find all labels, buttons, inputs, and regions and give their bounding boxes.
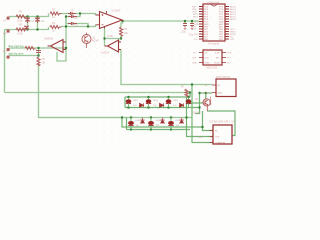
wire fb resistor <box>121 21 123 27</box>
wire drive right leg <box>9 47 66 49</box>
svg-text:drive right leg: drive right leg <box>8 44 24 48</box>
IC1 outside pin labels <box>192 5 237 41</box>
svg-text:LED6: LED6 <box>156 120 162 122</box>
svg-text:VDD: VDD <box>227 52 232 54</box>
IC4 ultrasonic box <box>210 125 233 144</box>
wire opamp3 vertical <box>57 17 66 62</box>
svg-text:CLK: CLK <box>192 57 197 59</box>
wire cap q1 <box>184 21 186 23</box>
wire row2 <box>5 27 49 30</box>
wire q1 left col <box>195 93 200 114</box>
wire collector stub <box>205 93 207 99</box>
capacitor C2 <box>35 17 40 24</box>
wire R column x38 <box>38 48 40 57</box>
wire opamp2 input <box>118 39 120 42</box>
wire x38 down long <box>39 64 127 118</box>
wire opamp1 out <box>123 20 200 22</box>
wire emitter right <box>207 111 235 136</box>
svg-text:22p: 22p <box>181 30 186 34</box>
wire coupling loop <box>66 14 88 27</box>
svg-text:LED7: LED7 <box>176 120 182 122</box>
wire row2 to opamp <box>61 25 96 27</box>
svg-text:ATMEGA8: ATMEGA8 <box>207 1 220 5</box>
wire y127 <box>122 118 203 128</box>
LED A1 <box>126 98 132 108</box>
diode DA3 <box>180 103 184 107</box>
wire leda bottom long <box>125 107 200 109</box>
resistor R3 <box>50 12 62 15</box>
svg-text:Q1: Q1 <box>195 97 199 101</box>
svg-text:R7: R7 <box>181 85 185 89</box>
wire right leg electrode <box>9 55 39 57</box>
wire cap column 2 <box>37 17 39 30</box>
svg-text:1M: 1M <box>42 61 46 65</box>
diode DA1 <box>140 103 144 107</box>
wire row1 to opamp <box>61 14 96 16</box>
wire leda top right up <box>189 93 191 98</box>
svg-text:PD: PD <box>227 57 230 59</box>
resistor R2 <box>16 28 26 31</box>
resistor R4 <box>50 26 62 29</box>
svg-text:C4: C4 <box>74 16 78 20</box>
svg-text:R3: R3 <box>52 8 56 12</box>
svg-text:10k: 10k <box>124 31 129 35</box>
LED B1 <box>128 118 134 130</box>
wire cap column 1 <box>27 17 29 30</box>
svg-text:GND: GND <box>204 93 209 95</box>
svg-text:INT1: INT1 <box>193 16 199 18</box>
gnd CQ1 <box>184 28 186 29</box>
transistor Q1 <box>203 97 211 112</box>
svg-text:PD: PD <box>216 57 219 59</box>
LED A3 <box>166 98 172 108</box>
wire x192 column <box>192 85 213 143</box>
pad P4 <box>7 56 10 59</box>
svg-text:BC547: BC547 <box>92 41 100 43</box>
op-amp U3 (points left) <box>48 40 67 53</box>
svg-text:RA: RA <box>3 32 7 36</box>
wire row1 <box>9 14 49 17</box>
svg-text:R4: R4 <box>52 21 56 25</box>
wire opamp2 out vertical <box>104 39 106 47</box>
svg-text:R5: R5 <box>124 27 128 31</box>
op-amp U2 (points left) <box>105 40 122 52</box>
wire ledb bottom <box>127 129 191 131</box>
capacitor C3 <box>68 12 76 15</box>
wire y93 to pin2 <box>200 92 213 94</box>
wire y92 long <box>5 92 191 94</box>
svg-text:ADXL203: ADXL203 <box>206 66 218 70</box>
wire opamp2 lower input down <box>121 50 212 85</box>
svg-text:1uF: 1uF <box>41 21 46 23</box>
capacitor C5 (in loop lower) <box>68 22 77 25</box>
wire base <box>187 102 204 104</box>
LED A2 <box>146 98 152 108</box>
resistor R6 vertical x38 <box>37 57 40 66</box>
svg-text:LT1167: LT1167 <box>112 9 121 13</box>
svg-text:100k: 100k <box>17 19 23 23</box>
svg-text:3.3V: 3.3V <box>215 52 220 54</box>
svg-text:LM324: LM324 <box>101 51 109 55</box>
diode DB1 <box>140 118 144 124</box>
svg-text:GND: GND <box>218 93 223 95</box>
svg-text:COMMON: COMMON <box>215 143 226 145</box>
svg-text:C6: C6 <box>33 47 37 51</box>
svg-text:GND: GND <box>192 62 197 64</box>
gnd CQ2 <box>191 28 193 29</box>
svg-text:LED2: LED2 <box>153 100 159 102</box>
wire leda left <box>124 97 126 108</box>
resistor R5 vertical (feedback) <box>120 27 123 37</box>
diode DA2 <box>160 103 164 107</box>
svg-text:100k: 100k <box>17 32 23 36</box>
svg-text:RL: RL <box>3 50 7 54</box>
svg-text:ATmega8: ATmega8 <box>208 42 220 46</box>
IC3 motor driver <box>212 79 236 97</box>
pad P2 <box>7 30 10 33</box>
svg-text:R6: R6 <box>42 57 46 61</box>
diode DB3 <box>180 118 184 124</box>
resistor R1 <box>16 15 26 18</box>
svg-text:IC1B: IC1B <box>107 34 113 38</box>
svg-text:ADC0: ADC0 <box>230 18 237 21</box>
svg-text:MOTOR DR: MOTOR DR <box>216 75 230 79</box>
LED B3 <box>168 118 174 130</box>
svg-text:C5: C5 <box>74 24 78 28</box>
wire fb bottom <box>105 29 122 39</box>
svg-text:OC1: OC1 <box>230 39 235 41</box>
svg-text:ICP: ICP <box>194 39 198 41</box>
IC2 accelerometer <box>199 50 226 65</box>
capacitor CQ2 <box>190 24 194 28</box>
LED B2 <box>148 118 154 130</box>
capacitor CQ1 <box>183 24 187 28</box>
IC1 left pin names <box>204 6 224 41</box>
LED labels <box>133 100 182 127</box>
capacitor C6 (x38 column) <box>36 51 41 53</box>
IC1 ATmega DIP-28 <box>199 4 229 41</box>
diode DB2 <box>160 118 164 124</box>
capacitor C2b (above row2) <box>24 25 29 29</box>
svg-text:OC0: OC0 <box>194 34 199 36</box>
resistor R8 <box>25 47 35 50</box>
capacitor C1 <box>25 17 30 24</box>
svg-text:BC547: BC547 <box>193 111 201 115</box>
svg-text:C3: C3 <box>70 9 74 13</box>
wire left long vertical <box>4 30 6 93</box>
wire x186 column <box>187 97 214 137</box>
pad P1 <box>7 17 10 20</box>
svg-text:OUT: OUT <box>198 137 203 139</box>
wire ledb left <box>126 118 128 130</box>
svg-text:LED5: LED5 <box>136 120 142 122</box>
pad P3 <box>7 48 10 51</box>
resistor R7 vertical x186 <box>185 89 188 97</box>
svg-text:OUT: OUT <box>215 137 220 139</box>
op-amp U1 <box>96 11 124 29</box>
svg-text:1uF: 1uF <box>31 21 36 23</box>
grid dots <box>0 0 240 147</box>
svg-text:GND: GND <box>205 62 210 64</box>
svg-text:ULTRA SND SPLY GA: ULTRA SND SPLY GA <box>209 120 235 124</box>
svg-text:R1: R1 <box>19 10 23 14</box>
svg-text:CLK: CLK <box>205 57 210 59</box>
svg-text:R2: R2 <box>19 23 23 27</box>
svg-text:LA: LA <box>3 19 6 23</box>
wire emitter column <box>203 111 214 131</box>
svg-text:AD8031: AD8031 <box>44 37 54 41</box>
wire cap q2 <box>191 21 193 23</box>
svg-text:DO: DO <box>227 62 231 64</box>
wire leda top <box>125 96 190 98</box>
svg-text:right leg drive: right leg drive <box>8 52 24 56</box>
svg-text:DOUT: DOUT <box>214 62 221 64</box>
LED A4 <box>186 98 192 108</box>
capacitor C4 (in loop upper) <box>68 15 77 18</box>
svg-text:LED1: LED1 <box>133 100 139 102</box>
wire ledb top <box>39 117 193 119</box>
IC2 labels <box>205 52 221 64</box>
svg-text:LED3: LED3 <box>173 100 179 102</box>
transistor Q2 <box>82 33 91 49</box>
